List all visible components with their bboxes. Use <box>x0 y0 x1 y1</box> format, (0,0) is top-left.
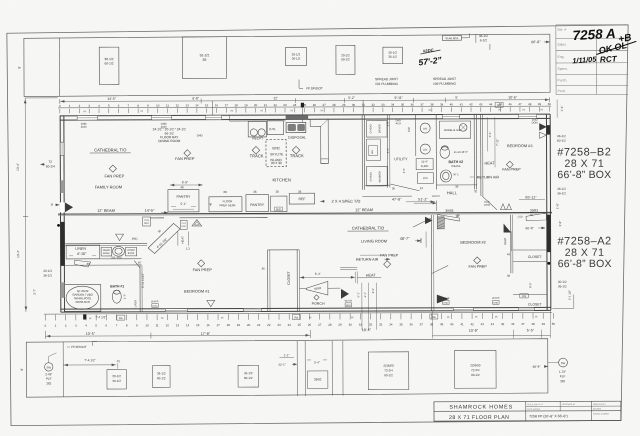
svg-text:Eng.: Eng. <box>557 55 564 59</box>
title block outer box <box>434 401 621 421</box>
pantry box left <box>168 190 199 212</box>
svg-text:DRYER: DRYER <box>377 124 381 133</box>
svg-text:60-1/2: 60-1/2 <box>157 376 166 380</box>
svg-text:O’HEAD: O’HEAD <box>369 124 372 134</box>
kitchen sink window dark <box>286 115 309 119</box>
top wall window DHD 4030 left <box>77 116 98 120</box>
svg-text:5'-9”: 5'-9” <box>182 180 188 184</box>
vanity drawer bank left <box>101 247 112 256</box>
top ruler mate mark black square <box>301 103 304 108</box>
svg-text:H: H <box>141 109 143 113</box>
svg-text:DRWNG NUMBER: DRWNG NUMBER <box>593 413 610 415</box>
left wall hatched section <box>60 222 65 266</box>
svg-text:DATE 10/20/04: DATE 10/20/04 <box>527 408 540 411</box>
svg-text:18'-6”: 18'-6” <box>362 328 372 332</box>
svg-text:33: 33 <box>381 103 385 107</box>
svg-text:3'-8”: 3'-8” <box>558 221 562 227</box>
svg-text:FAN PREP: FAN PREP <box>469 265 488 269</box>
svg-text:24: 24 <box>288 323 292 327</box>
svg-text:W.H.R: W.H.R <box>345 300 352 303</box>
entry dims vertical lines <box>361 283 363 330</box>
roof vent box 30-1/2 60-1/2 <box>99 47 119 84</box>
svg-text:W.H.R: W.H.R <box>492 297 499 300</box>
svg-text:1'-8”: 1'-8” <box>555 203 559 209</box>
svg-text:1-72”: 1-72” <box>559 370 566 374</box>
svg-text:36: 36 <box>455 214 459 218</box>
svg-text:9'-8”: 9'-8” <box>192 97 199 101</box>
svg-text:17: 17 <box>216 323 220 327</box>
svg-text:HALL: HALL <box>447 190 458 195</box>
pantry box right <box>246 195 269 212</box>
svg-text:13: 13 <box>185 103 189 107</box>
svg-text:13: 13 <box>176 323 180 327</box>
svg-text:30: 30 <box>352 103 356 107</box>
svg-text:18: 18 <box>227 323 231 327</box>
svg-text:R/A: R/A <box>419 238 423 243</box>
right wall hatch lower <box>547 215 551 253</box>
chassis box 38/82 <box>307 371 327 388</box>
svg-text:41: 41 <box>460 102 464 106</box>
svg-text:51'-2”: 51'-2” <box>418 197 428 201</box>
svg-text:36-1/2: 36-1/2 <box>157 371 166 375</box>
svg-text:27: 27 <box>323 103 327 107</box>
top wall window bedroom3 <box>519 114 537 118</box>
chassis box 2)36/60 second <box>454 350 496 388</box>
roof vent box 30-1/2 60-1/2 second <box>336 45 355 74</box>
svg-text:30-1/2: 30-1/2 <box>558 280 567 284</box>
roof strip outline <box>24 34 550 96</box>
svg-text:4'-1”: 4'-1” <box>363 292 367 297</box>
svg-text:5'-4”: 5'-4” <box>315 272 321 276</box>
svg-text:10'-5”: 10'-5” <box>86 332 96 336</box>
svg-text:WASHER: WASHER <box>378 171 382 182</box>
svg-text:DHD: DHD <box>197 133 203 137</box>
utility partial wall <box>386 115 388 188</box>
svg-text:6'-5”: 6'-5” <box>528 282 532 287</box>
svg-text:47'-8”: 47'-8” <box>392 198 402 202</box>
svg-text:CATHEDRAL T/O: CATHEDRAL T/O <box>94 147 126 152</box>
svg-text:FF.SPIGOT: FF.SPIGOT <box>306 86 323 90</box>
svg-text:P/A: P/A <box>423 176 428 180</box>
bedroom3 west wall <box>480 114 482 195</box>
svg-text:7258 FP (26’-8” X 66’-8”): 7258 FP (26’-8” X 66’-8”) <box>529 414 568 418</box>
svg-text:14'-5”: 14'-5” <box>145 208 156 213</box>
right wall door triangle bedroom3 <box>539 124 546 131</box>
marriage line 12in beam <box>58 212 552 214</box>
bedroom1 north wall segments <box>150 217 164 219</box>
svg-text:#39 PLUMBING: #39 PLUMBING <box>433 82 456 86</box>
svg-text:DRO: DRO <box>144 223 149 225</box>
svg-text:W.H.R: W.H.R <box>442 297 449 300</box>
chassis left divider <box>62 342 64 397</box>
svg-text:39: 39 <box>440 102 444 106</box>
svg-text:50: 50 <box>552 322 556 326</box>
svg-text:KITCHEN: KITCHEN <box>272 177 290 182</box>
svg-text:H: H <box>447 315 449 319</box>
chassis strip outline <box>26 339 548 397</box>
svg-text:SHAMROCK HOMES: SHAMROCK HOMES <box>449 404 513 410</box>
svg-text:2'-1 1/2”: 2'-1 1/2” <box>568 290 572 300</box>
bath2 toilet <box>440 147 450 159</box>
family room fan prep diamond <box>109 165 116 172</box>
svg-text:DRWN BY RLT: DRWN BY RLT <box>593 404 607 406</box>
svg-text:SPREAD JOIST: SPREAD JOIST <box>375 77 398 81</box>
svg-text:PLF: PLF <box>46 377 52 381</box>
svg-text:49: 49 <box>542 322 546 326</box>
svg-text:RECPT: RECPT <box>252 137 263 141</box>
svg-text:D.W.: D.W. <box>269 127 276 131</box>
svg-text:BEDROOM #3: BEDROOM #3 <box>507 143 533 148</box>
svg-text:TRACK: TRACK <box>290 153 304 158</box>
svg-text:32'-1”: 32'-1” <box>278 363 285 367</box>
svg-text:RETURN AIR: RETURN AIR <box>356 258 379 262</box>
bedroom1 whr vent <box>207 300 215 307</box>
svg-text:33: 33 <box>379 323 383 327</box>
svg-text:36”: 36” <box>138 261 142 265</box>
svg-text:SLAB BOX: SLAB BOX <box>445 36 458 40</box>
floor prep desk box <box>209 197 242 212</box>
svg-text:H: H <box>84 109 86 113</box>
svg-text:25: 25 <box>298 323 302 327</box>
svg-text:5'-2”: 5'-2” <box>348 96 355 100</box>
svg-text:5'-5”: 5'-5” <box>527 328 535 332</box>
svg-text:1.3: 1.3 <box>186 246 190 250</box>
svg-text:36: 36 <box>298 190 302 194</box>
svg-text:H: H <box>89 316 91 320</box>
svg-text:10'-6”: 10'-6” <box>508 95 517 99</box>
svg-text:32'-6”: 32'-6” <box>421 160 428 164</box>
svg-text:10: 10 <box>145 323 149 327</box>
svg-text:9'-11”: 9'-11” <box>394 96 402 100</box>
roof opening 91-1/2 83 <box>182 37 226 79</box>
bath1 angled door slab <box>148 223 180 253</box>
svg-text:7'-4 1/2”: 7'-4 1/2” <box>95 315 106 319</box>
svg-text:50: 50 <box>548 102 552 106</box>
svg-text:H: H <box>541 108 543 112</box>
top wall window bath2 <box>443 114 460 118</box>
left margin vertical dimension line <box>24 98 27 312</box>
dim 51-2 extension line <box>436 201 438 211</box>
bedroom2 door swing line <box>413 218 431 227</box>
svg-text:W.H.R: W.H.R <box>151 300 158 303</box>
svg-text:27: 27 <box>318 323 322 327</box>
svg-text:FAN PREP: FAN PREP <box>193 267 213 272</box>
utility av wall <box>415 115 417 156</box>
svg-text:30-1/2: 30-1/2 <box>43 269 52 273</box>
right wall hatch upper <box>546 125 550 135</box>
svg-text:SCALE 3/16”=1’-0”: SCALE 3/16”=1’-0” <box>527 403 543 406</box>
svg-text:H: H <box>309 315 311 319</box>
hall lower wall <box>362 195 411 197</box>
hall door triangle at beam <box>425 217 432 224</box>
svg-text:BEDROOM #2: BEDROOM #2 <box>460 240 486 245</box>
svg-text:(RE): (RE) <box>132 237 138 241</box>
svg-text:23: 23 <box>277 323 281 327</box>
svg-text:GRAB BAR: GRAB BAR <box>75 300 89 304</box>
utility washer box <box>367 166 388 186</box>
chassis SW circle right <box>559 358 568 367</box>
svg-text:8'-11 11/16”: 8'-11 11/16” <box>141 273 145 288</box>
svg-text:12': 12' <box>273 96 278 100</box>
svg-text:2)36/60: 2)36/60 <box>383 364 394 368</box>
svg-text:16: 16 <box>215 103 219 107</box>
bedroom3 door triangles double <box>540 132 547 138</box>
svg-text:66’-8”: 66’-8” <box>531 40 541 44</box>
svg-text:H: H <box>231 109 233 113</box>
svg-text:#31 PLUMBING: #31 PLUMBING <box>375 82 398 86</box>
svg-text:A/V: A/V <box>423 127 427 131</box>
svg-text:46: 46 <box>511 322 515 326</box>
chassis box 36-1/2 60-1/2 second <box>238 365 258 387</box>
svg-text:29: 29 <box>338 323 342 327</box>
svg-text:PREP DESK: PREP DESK <box>219 203 235 207</box>
bedroom1 closet left wall <box>267 250 269 311</box>
svg-text:36: 36 <box>507 274 511 278</box>
bedroom2 closet wall <box>510 215 512 273</box>
svg-text:36: 36 <box>262 267 266 271</box>
left wall window lower <box>60 180 64 193</box>
svg-text:Sales: Sales <box>557 43 566 47</box>
roof vent box 30-1/2 36-1/2 third <box>383 47 403 64</box>
living heat bracket <box>340 266 357 268</box>
top exterior wall <box>60 114 550 116</box>
svg-text:72-3/4: 72-3/4 <box>384 368 393 372</box>
svg-text:2 X 4 SPEC T/D: 2 X 4 SPEC T/D <box>332 199 361 204</box>
svg-text:SKYLITE: SKYLITE <box>270 152 283 156</box>
svg-text:DHD: DHD <box>276 209 281 211</box>
svg-text:1'-4”: 1'-4” <box>560 106 564 112</box>
closet 26 box <box>520 294 529 298</box>
svg-text:46: 46 <box>507 252 511 256</box>
svg-text:34: 34 <box>391 103 395 107</box>
svg-text:36: 36 <box>411 103 415 107</box>
svg-text:A/V: A/V <box>423 148 427 152</box>
top ruler dimension line <box>60 100 550 102</box>
top wall window DHD 4030 second <box>152 115 172 119</box>
svg-text:7'-11”: 7'-11” <box>495 139 499 146</box>
kitchen dishwasher DW <box>267 121 283 135</box>
svg-text:DHD: DHD <box>443 303 448 305</box>
svg-text:9': 9' <box>51 203 54 207</box>
vanity drawer bank right <box>125 247 136 255</box>
svg-text:42: 42 <box>470 322 474 326</box>
svg-text:2'-6”: 2'-6” <box>386 121 390 126</box>
svg-text:21: 21 <box>257 323 261 327</box>
svg-text:18: 18 <box>234 103 238 107</box>
bath1 vent triangles <box>116 234 124 241</box>
bedroom1 closet top <box>268 249 299 251</box>
bath2 sink oval <box>440 170 451 182</box>
svg-text:60-1/2: 60-1/2 <box>244 376 253 380</box>
svg-text:26: 26 <box>313 103 317 107</box>
svg-text:15: 15 <box>196 323 200 327</box>
svg-text:16: 16 <box>206 323 210 327</box>
svg-text:3'-7”: 3'-7” <box>33 289 37 295</box>
svg-text:14: 14 <box>195 103 199 107</box>
furnace box <box>416 159 433 170</box>
garden tub deck <box>64 285 100 312</box>
bath1 area top wall <box>64 243 147 245</box>
svg-text:60-1/2: 60-1/2 <box>557 139 566 143</box>
vanity counter front <box>100 258 142 260</box>
svg-text:40LR: 40LR <box>395 122 401 125</box>
svg-text:(26): (26) <box>522 295 527 298</box>
top ruler RA box <box>495 102 503 107</box>
svg-text:6'-3”: 6'-3” <box>371 288 375 293</box>
svg-text:42: 42 <box>469 102 473 106</box>
title block dividers <box>434 410 621 413</box>
slab box callout <box>442 35 461 40</box>
bath1 right wall <box>139 266 141 312</box>
svg-text:21: 21 <box>264 103 268 107</box>
svg-text:36-1/2: 36-1/2 <box>244 371 253 375</box>
right wall junction dot <box>547 262 550 265</box>
heat triangles bedroom3 <box>500 204 505 210</box>
svg-text:TRACK: TRACK <box>250 153 264 158</box>
svg-text:RA: RA <box>119 316 123 320</box>
svg-text:43: 43 <box>479 102 483 106</box>
svg-text:Purch.: Purch. <box>558 78 568 82</box>
svg-text:30 X 36: 30 X 36 <box>271 161 282 165</box>
bath2 right wall <box>473 114 475 189</box>
svg-text:36-1/2: 36-1/2 <box>557 187 566 191</box>
svg-text:36: 36 <box>410 322 414 326</box>
svg-text:24: 24 <box>420 186 424 190</box>
kitchen island dashed <box>266 140 286 167</box>
svg-text:RETURN AIR: RETURN AIR <box>477 175 500 179</box>
svg-text:35: 35 <box>401 103 405 107</box>
svg-text:H: H <box>523 108 525 112</box>
svg-text:DISPOSAL: DISPOSAL <box>288 136 306 140</box>
dim extension line kitchen <box>302 107 304 121</box>
svg-text:Prod.: Prod. <box>558 89 566 93</box>
svg-text:7'-4 1/2”: 7'-4 1/2” <box>84 358 95 362</box>
svg-text:72-3/4: 72-3/4 <box>471 368 480 372</box>
svg-text:DHD: DHD <box>346 305 351 307</box>
svg-text:BATH #1: BATH #1 <box>110 284 124 288</box>
bath1 toilet <box>112 290 121 303</box>
linen room box <box>66 245 100 259</box>
vanity sink oval <box>113 246 125 256</box>
svg-text:HEAT: HEAT <box>484 160 495 165</box>
svg-text:47: 47 <box>521 322 525 326</box>
clg dro hatch box left <box>143 217 151 226</box>
svg-text:DRO: DRO <box>484 203 490 207</box>
water heater circle upper <box>420 123 430 133</box>
chassis box 2)36/60 first <box>368 352 409 390</box>
svg-text:6-1/2: 6-1/2 <box>480 38 488 42</box>
svg-text:20-1/2: 20-1/2 <box>112 374 121 378</box>
svg-text:13'-4”: 13'-4” <box>16 163 20 171</box>
linen angled shelf 30 <box>75 260 91 267</box>
svg-text:43: 43 <box>481 322 485 326</box>
svg-text:36-1/2: 36-1/2 <box>43 273 52 277</box>
top ruler baseline <box>58 106 551 108</box>
bottom exterior wall <box>61 307 551 309</box>
svg-text:H: H <box>221 316 223 320</box>
svg-text:H: H <box>535 315 537 319</box>
bedroom2 door triangle top <box>504 224 511 232</box>
svg-text:H: H <box>261 109 263 113</box>
svg-text:35: 35 <box>399 322 403 326</box>
svg-text:( 50: ( 50 <box>518 215 523 219</box>
svg-text:10'-8”: 10'-8” <box>469 329 479 333</box>
bedroom2 door swing bottom <box>437 295 448 303</box>
svg-text:PORCH: PORCH <box>312 302 325 306</box>
svg-text:O’BANK: O’BANK <box>451 165 461 168</box>
kitchen range <box>248 121 266 137</box>
svg-text:41: 41 <box>460 322 464 326</box>
svg-text:22: 22 <box>267 323 271 327</box>
svg-text:O’HEAD: O’HEAD <box>370 172 373 182</box>
garden tub oval <box>66 286 98 309</box>
svg-text:44: 44 <box>489 102 493 106</box>
left wall window upper <box>60 142 64 155</box>
bedroom2 fan diamond <box>474 257 481 264</box>
svg-text:36: 36 <box>253 190 257 194</box>
svg-text:H: H <box>351 315 353 319</box>
svg-text:47: 47 <box>518 102 522 106</box>
svg-text:DINING ROOM: DINING ROOM <box>158 139 180 143</box>
dining fan prep diamond <box>184 150 191 157</box>
porch fan diamond <box>314 295 319 300</box>
svg-text:CLG: CLG <box>182 223 187 225</box>
svg-text:H: H <box>499 108 501 112</box>
bedroom1 closet right wall <box>296 250 298 311</box>
svg-text:33/83: 33/83 <box>530 208 538 212</box>
svg-text:8': 8' <box>17 66 21 69</box>
right margin dim bracket <box>552 307 573 309</box>
bedroom3 door swing <box>482 196 497 210</box>
svg-text:20: 20 <box>254 103 258 107</box>
svg-text:60-1/2: 60-1/2 <box>384 373 393 377</box>
left wall door opening and swing <box>60 202 65 212</box>
svg-text:H: H <box>475 315 477 319</box>
svg-text:38/82: 38/82 <box>314 377 322 381</box>
svg-text:17: 17 <box>225 103 229 107</box>
svg-text:3'-5”: 3'-5” <box>402 168 406 173</box>
svg-text:15: 15 <box>205 103 209 107</box>
svg-text:Specs.: Specs. <box>557 67 567 71</box>
svg-text:H: H <box>495 315 497 319</box>
svg-text:2)36/60: 2)36/60 <box>470 363 481 367</box>
roof vent box 30-1/2 36-1/2 first <box>285 47 306 65</box>
svg-text:CLOSET: CLOSET <box>528 255 542 259</box>
svg-text:7258 A: 7258 A <box>572 26 616 43</box>
porch door swing triangle <box>341 289 348 298</box>
clg dro hatch box right <box>180 220 187 229</box>
hall upper wall <box>365 184 390 186</box>
svg-text:11: 11 <box>156 323 159 327</box>
counter end cap <box>321 159 329 164</box>
svg-text:23: 23 <box>283 103 287 107</box>
svg-text:38: 38 <box>430 322 434 326</box>
svg-text:6'-1”: 6'-1” <box>488 131 492 137</box>
svg-text:28: 28 <box>328 323 332 327</box>
kitchen L counter right <box>310 119 328 163</box>
svg-text:30'-1: 30'-1 <box>453 173 459 176</box>
svg-text:32/32: 32/32 <box>272 146 280 150</box>
roof strip left divider <box>58 38 60 96</box>
svg-text:31: 31 <box>359 323 363 327</box>
svg-text:36: 36 <box>455 185 459 189</box>
svg-text:34: 34 <box>389 322 393 326</box>
svg-text:60-1/4: 60-1/4 <box>46 164 55 168</box>
svg-text:HEAT: HEAT <box>366 274 377 278</box>
svg-text:44: 44 <box>491 322 495 326</box>
svg-text:48: 48 <box>180 185 184 189</box>
svg-text:383: 383 <box>46 381 51 385</box>
